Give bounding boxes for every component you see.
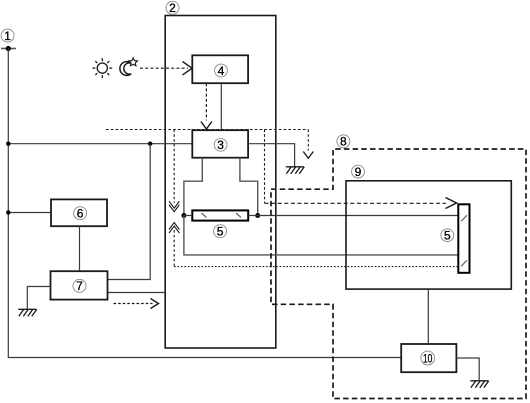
box 9 [346,181,511,289]
element 5 (horizontal heater element) [192,210,248,220]
dotted arrow down at x308 to ground region [307,130,309,151]
dashed arrow sun/moon to box4 [140,67,188,69]
ground (left, below box7) [18,309,37,316]
wire bus to box6 [8,212,51,214]
wire left bus vertical + bottom run to box10 [8,49,401,358]
svg-text:5: 5 [444,229,451,243]
up arrow below element, shaft down to y266.6 [169,223,179,230]
label 10 [421,351,435,365]
funnel wires box3 to element 5 [184,158,202,213]
svg-text:3: 3 [217,138,224,152]
box 3 [192,130,248,158]
node dot right [255,213,260,218]
box 4 [192,55,248,83]
label 3 [214,138,227,152]
moon icon [120,62,131,76]
label 7 [73,279,86,293]
node 1 battery tap [1,48,16,50]
element 5 (vertical heater element) [458,204,469,272]
fine dotted run y266.6 to right element [174,266,458,268]
label 2 [166,1,179,15]
label 1 [1,29,14,43]
wire vertical from dot down to box7 [108,144,151,280]
box 8 dashed region [271,149,526,399]
sun icon [92,58,112,78]
wire bus to box3 at y143.7 [8,143,192,145]
wire box9 bottom to box10 [427,289,429,344]
node dot left [181,213,186,218]
svg-text:8: 8 [340,135,347,149]
svg-text:7: 7 [76,279,83,293]
label 5 [441,229,454,243]
dotted line into box area y129.5 [106,129,308,131]
box 6 [51,199,107,226]
wire box7 to box2 edge [108,292,166,294]
wire box6 to box7 [79,226,81,271]
box 2 (relay/unit region) [165,16,276,349]
label 4 [215,64,228,78]
wire box3 right to ground [248,144,295,167]
wire left dot down and bottom loop to right element [184,216,458,255]
wire box4 to box3 solid [220,83,222,130]
dotted branch x264.5 down then right with arrow to element [264,130,266,204]
svg-text:4: 4 [218,64,225,78]
svg-text:5: 5 [217,225,224,239]
svg-text:10: 10 [423,351,433,365]
ground (bottom right) [470,381,489,388]
dashed arrow box4 to box3 [205,83,207,120]
label 5 [214,225,227,239]
dotted vertical x174.2 with down arrow [173,130,175,204]
box 10 [401,344,456,372]
star icon [129,58,138,66]
dashed arrow below box7 [114,303,153,305]
node dot [6,210,10,214]
svg-text:2: 2 [169,1,176,15]
svg-text:1: 1 [4,29,11,43]
ground (top middle) [286,167,305,174]
box 7 [51,271,108,299]
label 9 [352,165,365,179]
node dot [148,142,152,146]
label 6 [74,207,87,221]
svg-text:9: 9 [355,165,362,179]
label 8 [337,135,350,149]
wire box7 left to ground [27,287,50,309]
svg-text:6: 6 [77,207,84,221]
wire right dot to right element [258,215,459,217]
node dot [6,142,10,146]
wire box10 right to ground [456,358,479,380]
short stubs dots to element [184,215,192,217]
